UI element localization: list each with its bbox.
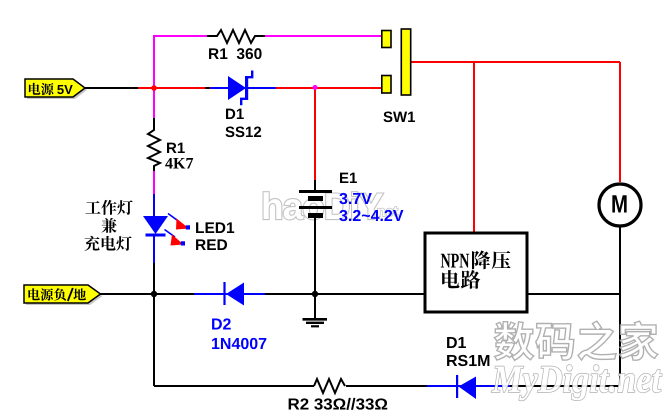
svg-text:1N4007: 1N4007 [211,336,267,353]
wire [153,263,155,386]
wire [265,35,383,37]
svg-text:M: M [611,191,628,219]
wire [154,385,314,387]
switch SW1 [382,29,416,126]
wire [138,87,210,89]
watermark MyDigit.net [491,358,662,401]
svg-text:R1 360: R1 360 [208,46,262,63]
junction node [313,85,318,90]
svg-text:5V: 5V [57,82,73,97]
svg-text:R2 33Ω//33Ω: R2 33Ω//33Ω [288,397,389,414]
svg-text:E1: E1 [339,170,357,187]
svg-text:R1: R1 [166,140,185,157]
svg-text:SS12: SS12 [225,124,262,141]
wire [153,235,155,263]
svg-text:LED1: LED1 [195,220,235,237]
wire [619,62,621,182]
wire [410,61,620,63]
wire [276,87,383,89]
ground [303,294,328,326]
svg-text:3.7V: 3.7V [339,191,372,208]
junction node [312,291,318,297]
svg-text:4K7: 4K7 [165,156,193,173]
resistor R2 33ohm//33ohm [288,379,389,414]
wire [346,385,427,387]
svg-text:D2: D2 [211,317,232,334]
watermark 数码之家 [494,321,657,360]
wire [314,217,316,293]
power flag 电源 5V [25,79,87,99]
junction node [151,85,157,91]
wire [265,293,425,295]
wire [85,87,138,89]
wire [100,293,194,295]
wire [154,36,207,118]
motor M [599,184,641,226]
svg-text:3.2~4.2V: 3.2~4.2V [339,208,404,225]
label 工作灯兼充电灯 [84,200,132,251]
wire [473,62,475,234]
wire [619,227,621,386]
power flag 电源负/地 [24,285,103,305]
wire [427,385,510,387]
svg-text:MyDigit.net: MyDigit.net [491,358,662,401]
diode D1 SS12 [206,71,277,142]
battery E1 3.7V [299,170,404,225]
wire [153,194,155,217]
junction node [151,291,157,297]
wire [510,385,619,387]
wire [194,293,265,295]
diode D1 RS1M [446,335,490,399]
svg-text:RED: RED [195,237,228,254]
wire [314,88,316,180]
wire [153,171,155,194]
LED LED1 RED [143,214,235,255]
block NPN降压电路 [425,233,527,312]
wire [527,293,619,295]
svg-text:SW1: SW1 [383,109,416,126]
resistor R1 360 [207,30,265,63]
svg-text:NPN: NPN [441,249,470,273]
diode D2 1N4007 [211,282,267,353]
svg-text:D1: D1 [446,335,467,352]
svg-text:D1: D1 [225,106,244,123]
svg-text:RS1M: RS1M [446,353,490,370]
resistor R1 4K7 [148,118,193,173]
watermark haoDiY.net [261,186,398,227]
